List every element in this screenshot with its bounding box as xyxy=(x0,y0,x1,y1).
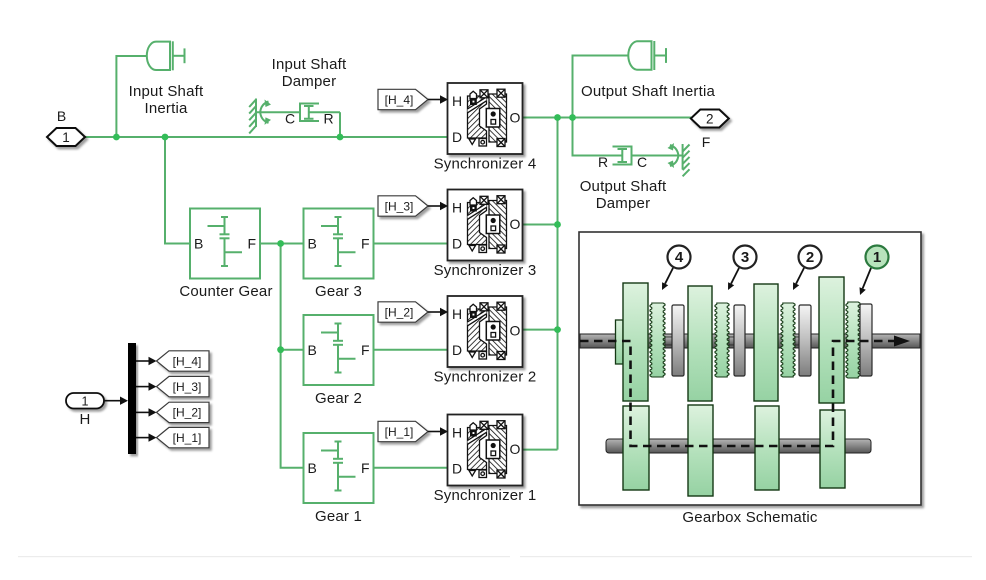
wire inport to demux xyxy=(104,400,121,402)
schematic input tab xyxy=(616,320,624,364)
svg-text:Output Shaft Inertia: Output Shaft Inertia xyxy=(581,83,716,100)
schematic callout arrow xyxy=(731,268,739,284)
wire demux to goto [H_4] xyxy=(136,360,149,362)
wire to Output Shaft Damper R xyxy=(573,118,623,156)
svg-text:D: D xyxy=(452,236,462,252)
svg-text:Counter Gear: Counter Gear xyxy=(179,283,272,300)
svg-text:1: 1 xyxy=(62,130,70,145)
svg-text:O: O xyxy=(510,110,521,126)
svg-text:3: 3 xyxy=(741,249,749,266)
schematic dog gear 1 xyxy=(859,337,861,345)
schematic dog gear 3 xyxy=(729,337,734,345)
damper block Input Shaft Damper xyxy=(249,99,340,134)
svg-text:B: B xyxy=(57,108,66,124)
svg-text:Damper: Damper xyxy=(596,195,651,212)
svg-text:H: H xyxy=(452,425,462,441)
wire Input Shaft Damper R to net xyxy=(339,112,341,137)
schematic top plate gear 4 xyxy=(623,283,648,401)
svg-text:C: C xyxy=(285,111,295,127)
svg-text:[H_3]: [H_3] xyxy=(173,380,202,394)
wire output shaft net to port F xyxy=(523,117,692,119)
goto tag [H_3] xyxy=(157,376,210,396)
svg-text:H: H xyxy=(452,200,462,216)
wire Gear 3 F to Synchronizer 3 D xyxy=(374,243,448,245)
wire [H_2] to H xyxy=(428,311,441,313)
svg-text:[H_4]: [H_4] xyxy=(385,93,414,107)
schematic bottom plate gear 4 xyxy=(623,406,649,490)
svg-text:F: F xyxy=(361,460,370,476)
gear block Gear 1 xyxy=(304,433,374,503)
svg-text:F: F xyxy=(702,134,711,150)
svg-text:4: 4 xyxy=(675,249,684,266)
svg-text:Gear 3: Gear 3 xyxy=(315,283,362,300)
schematic synchronizer ring 4 xyxy=(672,305,684,376)
schematic bottom plate gear 3 xyxy=(688,405,713,496)
svg-text:Synchronizer 4: Synchronizer 4 xyxy=(434,156,537,173)
schematic top plate gear 3 xyxy=(688,286,712,401)
schematic bottom plate gear 2 xyxy=(755,406,779,490)
schematic synchronizer ring 2 xyxy=(799,305,811,376)
wire junction 2 xyxy=(162,134,169,141)
schematic callout 4 xyxy=(668,246,691,269)
svg-text:H: H xyxy=(79,411,90,428)
schematic dog gear 2 xyxy=(795,337,799,345)
inertia block Input Shaft Inertia xyxy=(147,41,185,70)
svg-text:Gearbox Schematic: Gearbox Schematic xyxy=(682,509,817,526)
wire junction 4 xyxy=(277,240,284,247)
svg-text:R: R xyxy=(324,111,334,127)
svg-text:2: 2 xyxy=(706,111,714,126)
svg-text:B: B xyxy=(308,460,317,476)
wire Gear 1 F to Synchronizer 1 D xyxy=(374,467,448,469)
schematic callout 3 xyxy=(734,246,757,269)
wire Counter Gear F to Gear 3 B xyxy=(260,243,304,245)
wire demux to goto [H_2] xyxy=(136,411,149,413)
svg-text:B: B xyxy=(194,236,203,252)
annotation panel Gearbox Schematic xyxy=(579,232,921,505)
schematic callout arrow xyxy=(796,268,804,284)
svg-text:Gear 1: Gear 1 xyxy=(315,508,362,525)
svg-text:[H_1]: [H_1] xyxy=(385,425,414,439)
svg-text:D: D xyxy=(452,461,462,477)
svg-text:Damper: Damper xyxy=(282,73,337,90)
wire to Output Shaft Inertia xyxy=(573,56,629,118)
svg-text:[H_1]: [H_1] xyxy=(173,431,202,445)
goto tag [H_1] xyxy=(157,427,210,447)
wire Gear 2 F to Synchronizer 2 D xyxy=(374,349,448,351)
schematic bottom plate gear 1 xyxy=(820,410,845,488)
damper block Output Shaft Damper xyxy=(613,143,690,176)
from tag [H_2] xyxy=(378,302,428,322)
synchronizer block Synchronizer 2 xyxy=(448,296,523,367)
from tag [H_1] xyxy=(378,421,428,441)
svg-text:F: F xyxy=(248,236,257,252)
page bottom divider xyxy=(18,556,510,557)
svg-text:[H_3]: [H_3] xyxy=(385,199,414,213)
gear block Gear 2 xyxy=(304,315,374,385)
demux bar xyxy=(128,343,136,454)
wire demux to goto [H_3] xyxy=(136,386,149,388)
inport 1 (H) xyxy=(66,393,104,409)
svg-text:H: H xyxy=(452,306,462,322)
wire [H_4] to H xyxy=(428,99,441,101)
gear block Gear 3 xyxy=(304,209,374,279)
wire to Input Shaft Inertia xyxy=(116,56,147,137)
schematic callout 2 xyxy=(799,246,822,269)
connection port 2 (F) xyxy=(691,110,729,128)
synchronizer block Synchronizer 1 xyxy=(448,415,523,486)
schematic top plate gear 1 xyxy=(819,277,844,403)
inertia block Output Shaft Inertia xyxy=(628,41,666,70)
schematic power flow dashed path xyxy=(580,341,896,446)
wire [H_1] to H xyxy=(428,431,441,433)
wire bus to Gear 2 B xyxy=(281,349,304,351)
synchronizer block Synchronizer 4 xyxy=(448,83,523,154)
svg-text:B: B xyxy=(308,342,317,358)
svg-text:F: F xyxy=(361,236,370,252)
schematic callout arrow xyxy=(863,268,871,289)
wire junction 7 xyxy=(569,114,576,121)
wire [H_3] to H xyxy=(428,205,441,207)
wire junction 3 xyxy=(337,134,344,141)
wire to Counter Gear B xyxy=(165,137,190,244)
schematic callout 1 xyxy=(866,246,889,269)
schematic synchronizer ring 3 xyxy=(734,305,745,376)
svg-text:Synchronizer 3: Synchronizer 3 xyxy=(434,262,537,279)
wire junction 5 xyxy=(277,346,284,353)
svg-text:Inertia: Inertia xyxy=(144,100,188,117)
svg-text:Input Shaft: Input Shaft xyxy=(129,83,204,100)
svg-text:1: 1 xyxy=(873,249,881,266)
svg-text:[H_2]: [H_2] xyxy=(173,406,202,420)
wire main input shaft net B xyxy=(85,136,448,138)
wire left gear bus xyxy=(281,244,304,468)
svg-text:Synchronizer 1: Synchronizer 1 xyxy=(434,487,537,504)
svg-text:R: R xyxy=(598,154,608,170)
schematic dog gear 4 xyxy=(665,337,672,345)
connection port 1 (B) xyxy=(47,128,85,146)
svg-text:2: 2 xyxy=(806,249,814,266)
goto tag [H_4] xyxy=(157,351,210,371)
svg-text:O: O xyxy=(510,441,521,457)
wire junction 8 xyxy=(554,221,561,228)
schematic callout arrow xyxy=(665,268,673,284)
wire junction 9 xyxy=(554,326,561,333)
svg-text:H: H xyxy=(452,93,462,109)
svg-text:Output Shaft: Output Shaft xyxy=(580,178,667,195)
svg-text:F: F xyxy=(361,342,370,358)
svg-text:1: 1 xyxy=(82,394,89,408)
goto tag [H_2] xyxy=(157,402,210,422)
wire demux to goto [H_1] xyxy=(136,437,149,439)
synchronizer block Synchronizer 3 xyxy=(448,190,523,261)
svg-text:O: O xyxy=(510,323,521,339)
svg-text:Synchronizer 2: Synchronizer 2 xyxy=(434,369,537,386)
svg-text:Input Shaft: Input Shaft xyxy=(272,56,347,73)
svg-text:[H_4]: [H_4] xyxy=(173,354,202,368)
svg-text:D: D xyxy=(452,129,462,145)
schematic bottom shaft xyxy=(606,439,871,453)
wire junction 6 xyxy=(554,114,561,121)
schematic top plate gear 2 xyxy=(754,284,778,401)
wire synchronizer output bus xyxy=(523,118,558,450)
svg-text:Gear 2: Gear 2 xyxy=(315,390,362,407)
svg-text:O: O xyxy=(510,216,521,232)
from tag [H_4] xyxy=(378,89,428,109)
svg-text:D: D xyxy=(452,342,462,358)
svg-text:[H_2]: [H_2] xyxy=(385,305,414,319)
gear block Counter Gear xyxy=(190,209,260,279)
schematic synchronizer ring 1 xyxy=(860,304,872,376)
from tag [H_3] xyxy=(378,196,428,216)
svg-text:B: B xyxy=(308,236,317,252)
svg-text:C: C xyxy=(637,154,647,170)
wire junction 1 xyxy=(113,134,120,141)
schematic top shaft xyxy=(580,334,920,348)
